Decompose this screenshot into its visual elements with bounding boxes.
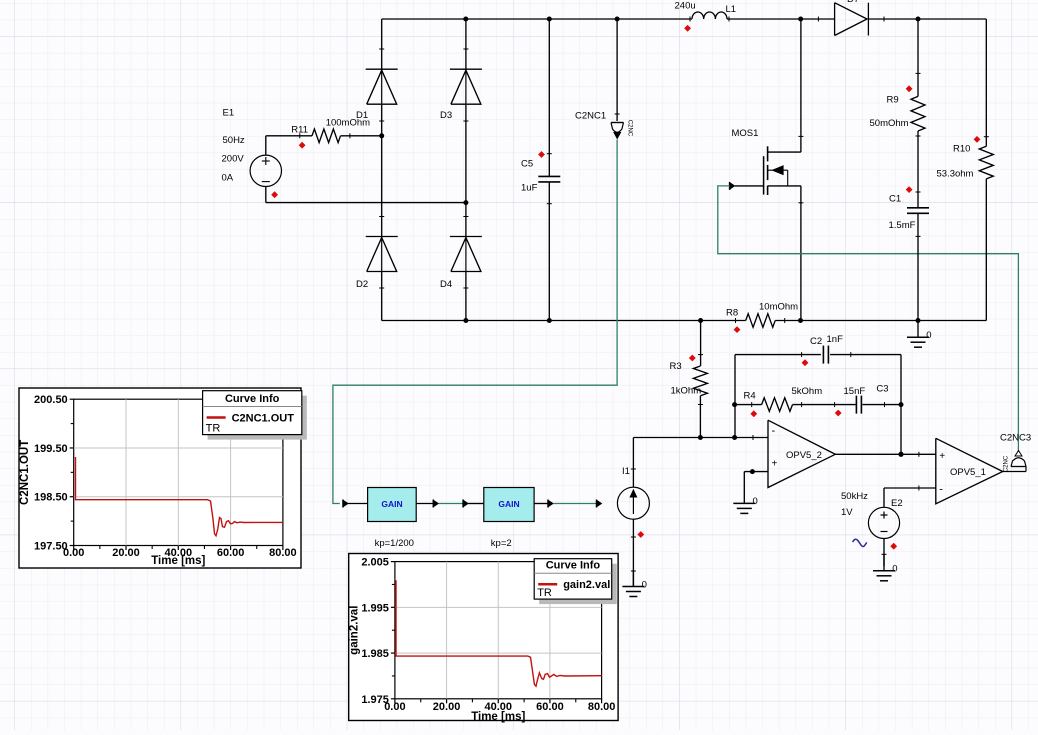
svg-text:2.005: 2.005	[361, 557, 389, 569]
svg-text:+: +	[939, 451, 945, 462]
wire teal signal from C2NC1 to gain1	[333, 140, 617, 504]
sine symbol for E2	[853, 539, 867, 546]
voltage source E1	[250, 155, 281, 186]
svg-text:80.00: 80.00	[588, 701, 616, 713]
diode D3	[450, 68, 482, 70]
resistor R3	[693, 366, 707, 396]
svg-text:GAIN: GAIN	[381, 499, 402, 509]
svg-text:1V: 1V	[841, 507, 853, 518]
diode D1	[366, 68, 398, 70]
diode D4	[450, 236, 482, 238]
svg-text:0.00: 0.00	[63, 547, 84, 559]
wire top rail right segment	[868, 18, 986, 20]
svg-text:0: 0	[926, 330, 931, 341]
svg-text:GAIN: GAIN	[498, 499, 519, 509]
svg-text:R4: R4	[744, 391, 756, 402]
svg-text:0.00: 0.00	[384, 701, 405, 713]
svg-text:-: -	[772, 425, 776, 437]
svg-text:R10: R10	[953, 144, 970, 155]
svg-text:0: 0	[892, 564, 897, 575]
svg-text:D4: D4	[440, 279, 452, 290]
gain block GAIN1	[348, 503, 368, 505]
capacitor C2	[822, 346, 824, 364]
wire teal gate signal	[718, 186, 1019, 452]
svg-text:E2: E2	[891, 498, 903, 509]
op-amp OPV5_2	[768, 420, 835, 487]
wire R4 to C3	[793, 404, 857, 406]
plot plot2 axes box	[395, 562, 602, 699]
wire OPV5_2 output	[835, 453, 936, 455]
svg-text:C2: C2	[810, 336, 822, 347]
svg-text:Curve Info: Curve Info	[225, 393, 280, 405]
wire MOS1 source	[768, 185, 801, 187]
svg-text:1uF: 1uF	[521, 183, 538, 194]
svg-text:I1: I1	[622, 466, 630, 477]
plot plot2 gridlines	[446, 562, 448, 699]
svg-text:1.985: 1.985	[361, 648, 389, 660]
wire R3 top	[700, 321, 702, 367]
wire bottom rail	[382, 320, 746, 322]
wire feedback right vertical	[900, 355, 902, 455]
wire top rail middle segment (L1 to diode)	[727, 18, 835, 20]
resistor R4	[735, 404, 762, 406]
wire top rail left segment	[382, 18, 692, 20]
probe dot near C2	[802, 359, 809, 366]
svg-text:+: +	[772, 459, 778, 470]
svg-text:53.3ohm: 53.3ohm	[937, 169, 974, 180]
probe dot near C5	[538, 151, 545, 158]
plot plot1 axes box	[74, 399, 283, 545]
svg-text:D2: D2	[356, 279, 368, 290]
wire E1 minus to node B	[265, 187, 267, 203]
svg-text:MOS1: MOS1	[732, 128, 759, 139]
junction inverting input	[732, 435, 737, 440]
svg-text:10mOhm: 10mOhm	[759, 302, 798, 313]
svg-text:kp=1/200: kp=1/200	[375, 538, 414, 549]
node B junction (E1 return)	[463, 200, 468, 205]
svg-text:TR: TR	[206, 423, 221, 435]
junction R4 left	[732, 402, 737, 407]
voltage source E2	[883, 488, 885, 507]
plot plot1 frame	[19, 388, 301, 568]
wire MOS1 drain	[800, 19, 802, 152]
plot plot2 legend shadow	[539, 564, 617, 604]
svg-text:OPV5_2: OPV5_2	[786, 450, 822, 461]
svg-text:100mOhm: 100mOhm	[326, 118, 370, 129]
probe dot near R3	[689, 355, 696, 362]
svg-text:E1: E1	[223, 108, 235, 119]
svg-text:D3: D3	[440, 110, 452, 121]
svg-text:R9: R9	[887, 95, 899, 106]
svg-text:15nF: 15nF	[844, 386, 866, 397]
svg-text:R8: R8	[726, 308, 738, 319]
svg-text:C5: C5	[521, 159, 533, 170]
svg-text:C2NC1: C2NC1	[575, 111, 606, 122]
probe dot near R11	[299, 142, 306, 149]
resistor R8	[746, 314, 776, 328]
svg-text:kp=2: kp=2	[491, 538, 512, 549]
transistor MOS1 gate electrode	[763, 156, 765, 194]
wire teal gain1 to gain2	[439, 503, 464, 505]
wire to probe C2NC1	[616, 19, 618, 121]
probe C2NC3 symbol	[1015, 451, 1022, 457]
ground at bottom rail	[917, 321, 919, 338]
probe dot near E2	[890, 543, 897, 550]
svg-text:OPV5_1: OPV5_1	[950, 467, 986, 478]
wire R10 top	[985, 19, 987, 146]
resistor R10	[979, 146, 993, 179]
svg-text:R11: R11	[291, 124, 308, 135]
svg-text:C3: C3	[876, 383, 888, 394]
capacitor C5	[538, 175, 560, 177]
wire E2 bottom	[883, 539, 885, 567]
wire I1 bottom	[632, 519, 634, 586]
svg-text:50kHz: 50kHz	[841, 491, 868, 502]
ground below I1	[632, 570, 634, 587]
wire C1 bottom	[917, 214, 919, 321]
svg-text:50Hz: 50Hz	[223, 135, 245, 146]
probe dot near R10	[974, 136, 981, 143]
probe dot near R9	[906, 85, 913, 92]
svg-text:20.00: 20.00	[433, 701, 461, 713]
wire C5 bottom	[548, 182, 550, 320]
svg-text:C2NC1.OUT: C2NC1.OUT	[19, 440, 31, 505]
svg-text:C2NC: C2NC	[1004, 455, 1010, 472]
svg-text:200V: 200V	[222, 154, 245, 165]
wire bridge left column	[381, 19, 383, 69]
op-amp OPV5_1	[936, 438, 1003, 504]
wire R9 to C1	[917, 131, 919, 208]
wire inverting input row	[633, 437, 768, 439]
node junction dots on bottom rail	[463, 318, 468, 323]
wire bridge right column	[465, 19, 467, 69]
svg-text:60.00: 60.00	[217, 547, 245, 559]
svg-text:1nF: 1nF	[827, 334, 844, 345]
svg-text:TR: TR	[537, 587, 552, 599]
ground below E2	[883, 554, 885, 571]
wire C3 to right vertical	[862, 404, 901, 406]
svg-text:C2NC3: C2NC3	[1000, 433, 1031, 444]
resistor R11	[312, 129, 341, 143]
svg-text:0: 0	[753, 496, 758, 507]
svg-text:C1: C1	[889, 194, 901, 205]
wire teal gain2 to I1	[553, 503, 596, 505]
plot plot1 legend shadow	[208, 396, 307, 440]
svg-text:-: -	[939, 484, 943, 496]
svg-text:200.50: 200.50	[34, 394, 68, 406]
current source I1	[617, 487, 649, 519]
svg-text:Time [ms]: Time [ms]	[471, 711, 525, 723]
resistor R9	[911, 96, 925, 131]
wire R3 bottom	[699, 396, 701, 438]
svg-text:20.00: 20.00	[112, 547, 140, 559]
svg-text:80.00: 80.00	[269, 547, 297, 559]
svg-text:1.5mF: 1.5mF	[889, 220, 916, 231]
wire R9 top	[917, 19, 919, 96]
wire feedback left vertical	[734, 355, 736, 438]
svg-text:0: 0	[642, 579, 647, 590]
wire I1 top	[632, 438, 634, 488]
gate input arrow	[729, 182, 731, 190]
svg-text:199.50: 199.50	[34, 443, 68, 455]
probe dots near R4 and C3	[750, 410, 757, 417]
svg-text:50mOhm: 50mOhm	[870, 118, 909, 129]
svg-text:5kOhm: 5kOhm	[792, 386, 823, 397]
svg-text:Time [ms]: Time [ms]	[151, 555, 205, 567]
wire C5 top	[548, 19, 550, 176]
plot plot2 ticks and tick labels	[391, 561, 395, 563]
svg-text:gain2.val: gain2.val	[563, 579, 610, 591]
svg-text:240u: 240u	[675, 1, 696, 12]
wire gain1 output	[416, 503, 433, 505]
capacitor C1	[907, 207, 929, 209]
svg-text:C2NC: C2NC	[627, 120, 633, 137]
probe C2NC1 symbol	[611, 122, 624, 124]
diode D7 (boost diode)	[834, 3, 836, 36]
wire gain2 output	[534, 503, 548, 505]
plot plot1 gridlines	[125, 399, 127, 545]
wire inverting input OPV5_1 from E2	[884, 487, 936, 489]
gain block GAIN2	[468, 503, 484, 505]
probe dot near C1	[906, 186, 913, 193]
svg-text:198.50: 198.50	[34, 492, 68, 504]
node junction dots on top rail	[463, 17, 468, 22]
svg-text:Curve Info: Curve Info	[546, 560, 601, 572]
transistor MOS1 body diode arrow	[768, 169, 773, 171]
svg-text:gain2.val: gain2.val	[349, 606, 361, 655]
svg-text:R3: R3	[670, 361, 682, 372]
node A junction (R11 to bridge)	[379, 133, 384, 138]
wire noninverting input OPV5_2	[744, 471, 768, 473]
wire R11 to node A	[341, 135, 382, 137]
svg-text:1kOhm: 1kOhm	[671, 386, 702, 397]
transistor MOS1 channel	[767, 146, 769, 161]
ground at OPV5_2 noninverting input	[743, 487, 745, 504]
probe dot near I1	[637, 531, 644, 538]
svg-text:C2NC1.OUT: C2NC1.OUT	[232, 413, 295, 425]
svg-text:60.00: 60.00	[536, 701, 564, 713]
plot plot1 curve	[76, 457, 283, 536]
inductor L1	[692, 12, 727, 19]
probe dot near R8	[734, 326, 741, 333]
probe dot below L1	[684, 25, 691, 32]
diode D2	[366, 236, 398, 238]
plot plot1 legend box	[203, 391, 302, 435]
plot plot1 ticks and tick labels	[70, 398, 74, 400]
probe dot below E1	[271, 191, 278, 198]
svg-text:L1: L1	[726, 4, 737, 15]
svg-text:D7: D7	[847, 0, 859, 5]
wire E1 plus to R11	[265, 136, 267, 155]
wire R10 bottom	[985, 179, 987, 321]
plot plot2 frame	[349, 554, 618, 721]
capacitor C3	[855, 396, 857, 414]
wire OPV5_1 output	[1003, 471, 1026, 473]
plot plot2 curve	[396, 580, 602, 686]
svg-text:0A: 0A	[222, 173, 234, 184]
svg-text:1.995: 1.995	[361, 602, 389, 614]
wire feedback top (C2 row)	[735, 354, 821, 356]
plot plot2 legend box	[534, 559, 612, 599]
